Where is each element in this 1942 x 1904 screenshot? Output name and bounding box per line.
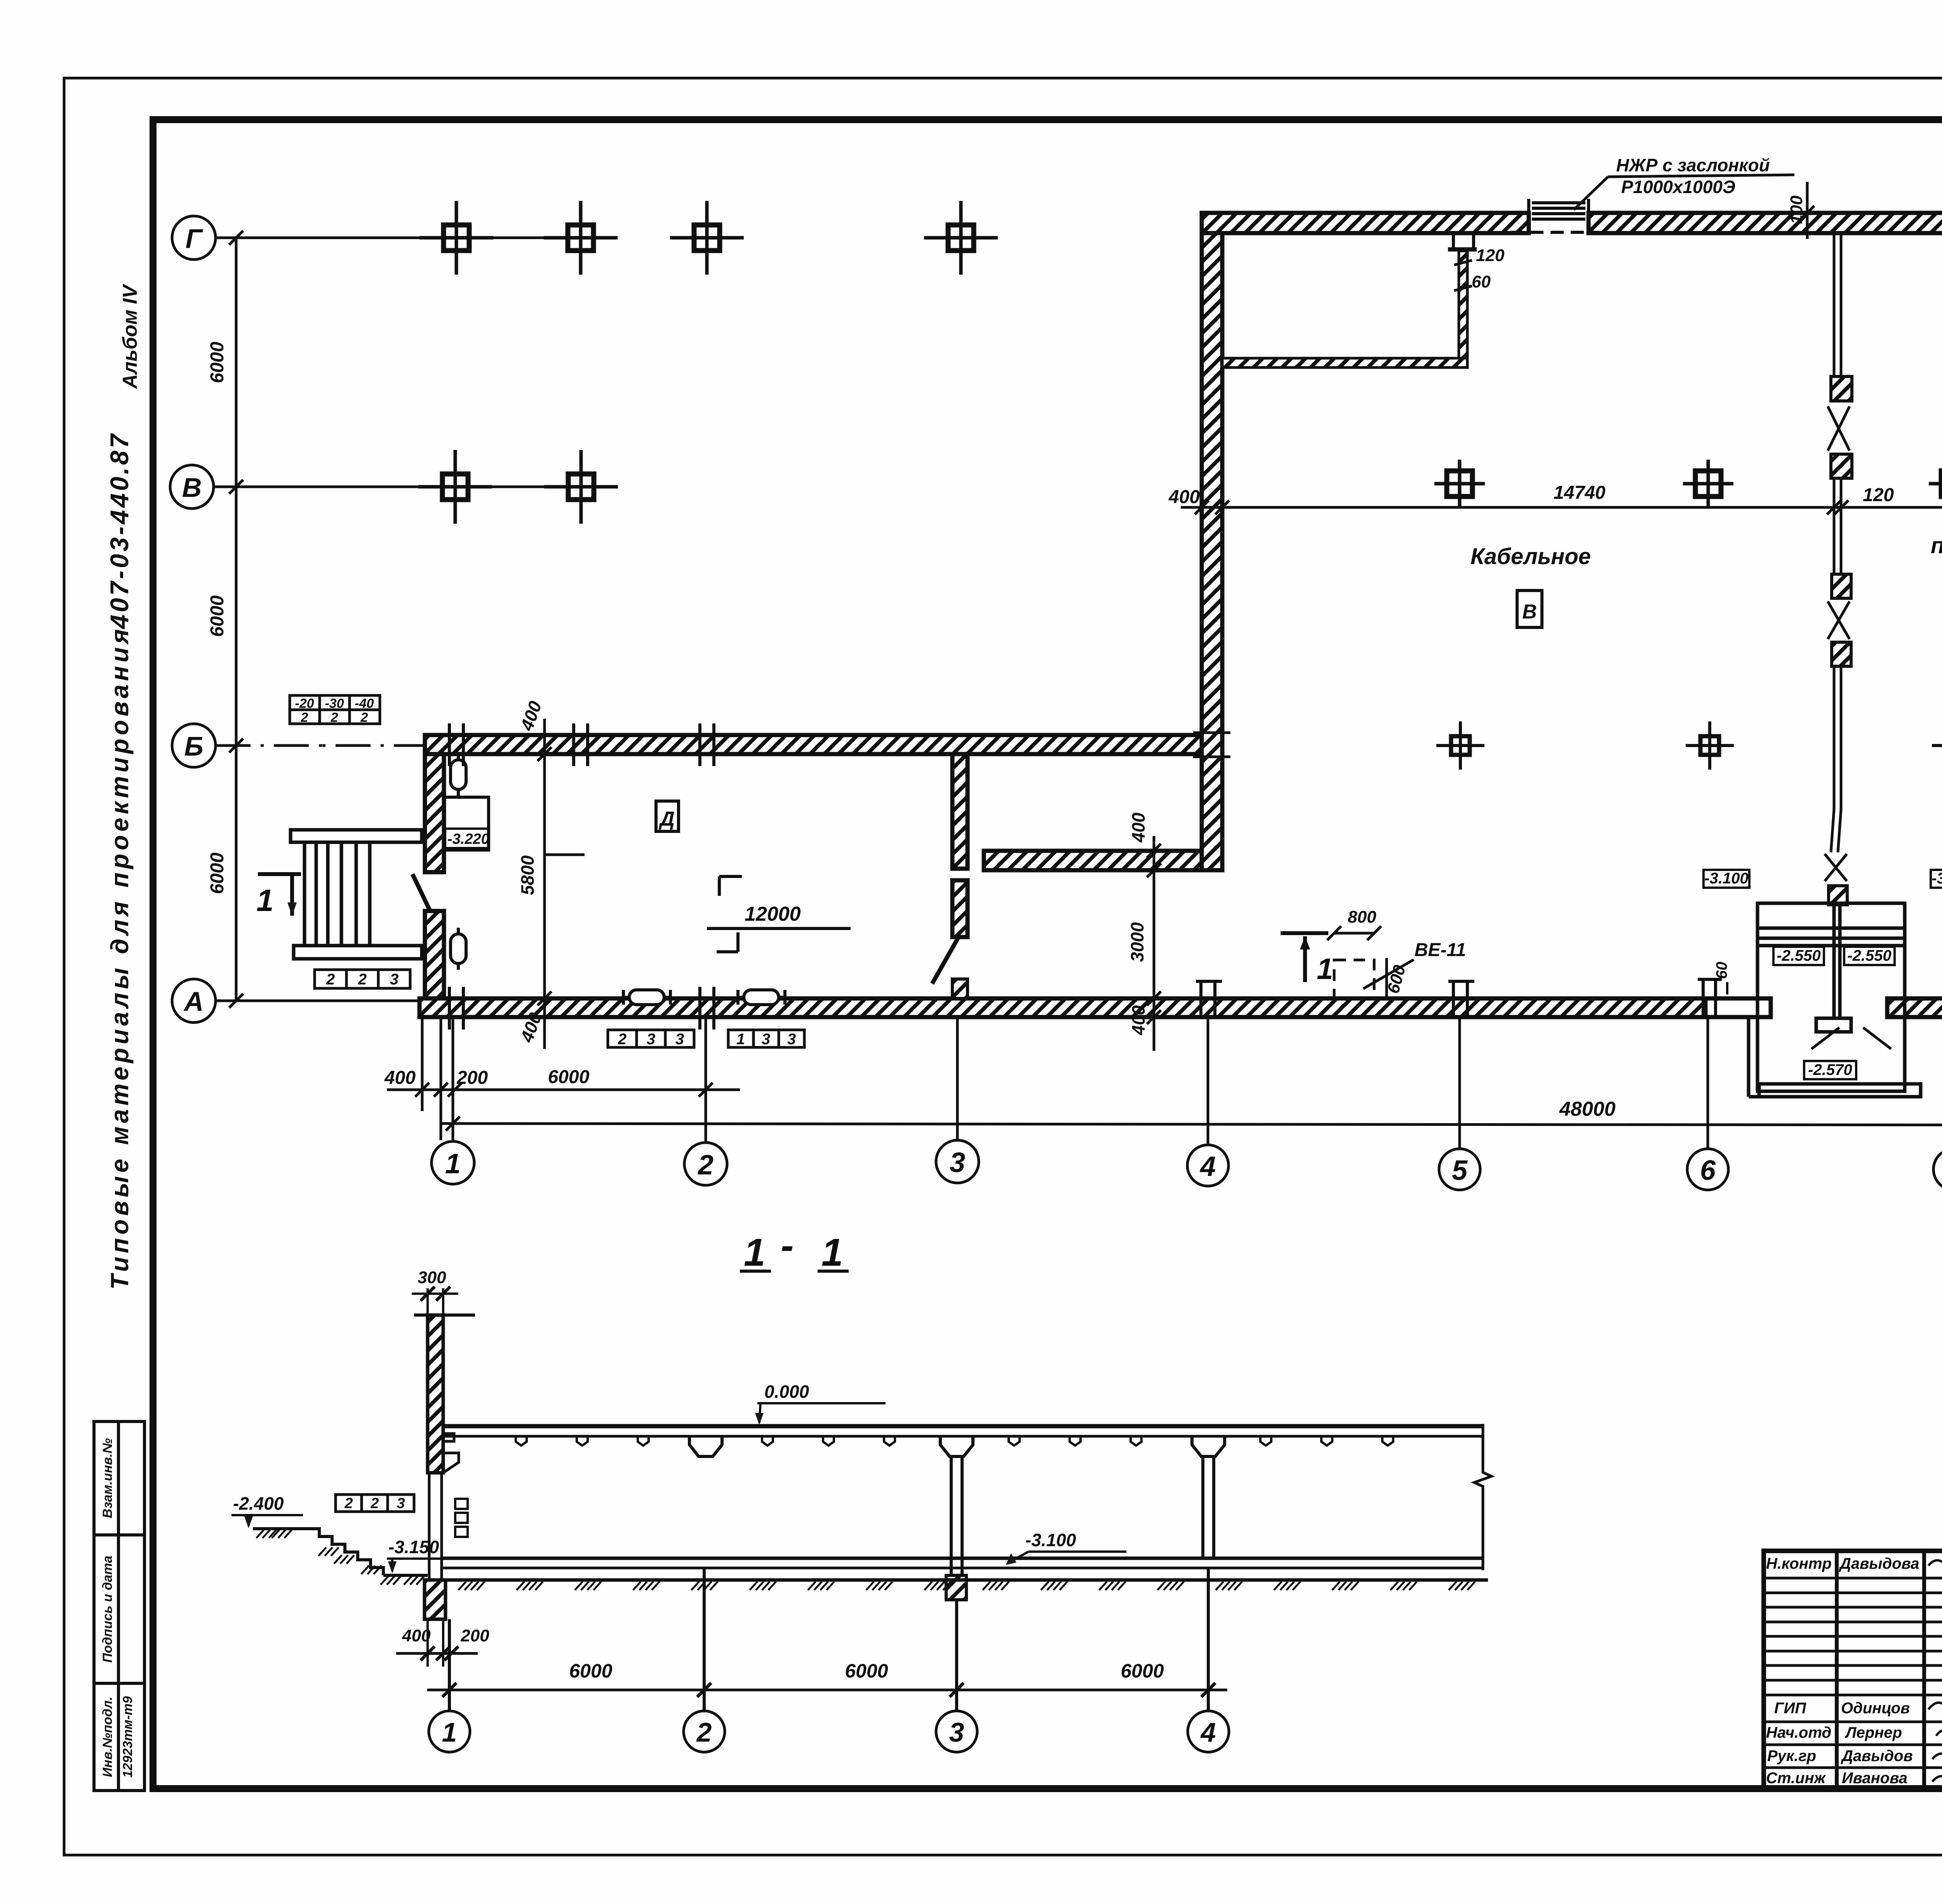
column capitals under slab <box>689 1436 722 1456</box>
signatures squiggles <box>1928 1557 1942 1782</box>
svg-text:200: 200 <box>460 1626 489 1645</box>
section title 1 - 1 <box>744 1224 843 1274</box>
svg-text:-3.100: -3.100 <box>1025 1530 1076 1550</box>
svg-text:НЖР с заслонкой: НЖР с заслонкой <box>1616 155 1770 175</box>
svg-text:6000: 6000 <box>207 341 228 383</box>
column symbols row Г <box>419 201 998 275</box>
svg-text:-3.150: -3.150 <box>388 1537 439 1557</box>
svg-text:0.000: 0.000 <box>764 1381 809 1402</box>
svg-text:2: 2 <box>370 1495 379 1512</box>
radiators on bottom wall room Д <box>623 990 785 1005</box>
svg-text:3: 3 <box>397 1495 405 1512</box>
door leaf west wall of room Д <box>412 874 430 911</box>
svg-text:1: 1 <box>736 1031 745 1048</box>
axis Г <box>172 216 216 260</box>
svg-text:Нач.отд: Нач.отд <box>1766 1724 1831 1741</box>
48000 dim line <box>441 1124 1942 1125</box>
wall junction ticks on west wall of big room <box>1193 732 1230 734</box>
dim line 400/5800/400 right of stairs <box>516 698 585 1049</box>
door leaf axis 3 <box>932 937 959 984</box>
svg-text:3: 3 <box>390 971 398 988</box>
svg-text:-40: -40 <box>355 696 374 711</box>
400/200/6000 dims bottom-left <box>387 1089 740 1091</box>
section mark 1 near stairs <box>256 874 301 918</box>
svg-text:6000: 6000 <box>207 595 228 637</box>
svg-text:Типовые материалы для проек: Типовые материалы для проектирования <box>106 625 134 1289</box>
svg-text:-3.220: -3.220 <box>447 831 489 847</box>
floor slab 0.000 <box>443 1424 1483 1428</box>
table 2 2 3 on section <box>336 1495 414 1512</box>
svg-text:Взам.инв.№: Взам.инв.№ <box>100 1438 115 1518</box>
svg-text:3: 3 <box>647 1031 655 1048</box>
vent grille 1 on top wall <box>1510 199 1599 232</box>
bottom wall (axis А) left of tank <box>419 998 1705 1017</box>
svg-text:-20: -20 <box>295 696 314 711</box>
tank level labels <box>1704 870 1942 1079</box>
equipment block -3.220 at west wall <box>444 797 489 850</box>
svg-text:2: 2 <box>301 710 308 725</box>
svg-text:1: 1 <box>256 883 274 918</box>
svg-text:407-03-440.87: 407-03-440.87 <box>105 432 134 629</box>
svg-text:Г: Г <box>186 223 204 254</box>
room Д west wall lower <box>425 911 444 998</box>
left margin small table <box>94 1421 144 1791</box>
svg-text:-2.400: -2.400 <box>233 1493 284 1514</box>
svg-text:Д: Д <box>658 808 675 830</box>
stamp texts <box>1766 1555 1942 1843</box>
svg-text:В: В <box>182 472 202 503</box>
svg-text:Б: Б <box>184 731 204 761</box>
svg-text:3: 3 <box>675 1031 684 1048</box>
svg-text:2: 2 <box>696 1717 712 1747</box>
svg-text:6000: 6000 <box>845 1660 888 1682</box>
svg-text:Иванова: Иванова <box>1842 1770 1907 1787</box>
svg-text:Одинцов: Одинцов <box>1841 1700 1910 1717</box>
column symbols row Б big room <box>1436 721 1942 770</box>
svg-text:Альбом IV: Альбом IV <box>119 283 141 389</box>
В dimension line across big room : 400 14740 120 14740 400 <box>1168 479 1942 514</box>
column symbols row В big room <box>1434 460 1942 508</box>
top-left interior room: vertical thin wall <box>1459 251 1467 364</box>
svg-text:14740: 14740 <box>1554 483 1606 503</box>
vent grille 1 label НЖР с заслонкой Р1000х1000Э <box>1574 155 1794 210</box>
svg-text:1: 1 <box>442 1717 457 1747</box>
tank (камера переключения задвижек) <box>1749 903 1921 1097</box>
axis В <box>170 465 214 509</box>
ВЕ-11 vent unit near axis 5 <box>1281 908 1466 998</box>
svg-text:120: 120 <box>1476 246 1505 265</box>
column at axis 3 with footing <box>950 1456 953 1575</box>
ground line <box>445 1578 1488 1582</box>
axis verticals up to plan <box>452 1013 454 1141</box>
svg-text:4: 4 <box>1199 1151 1216 1182</box>
svg-text:2: 2 <box>344 1495 353 1512</box>
slab ribs <box>516 1436 1393 1446</box>
main stamp outline <box>1764 1551 1942 1789</box>
svg-text:200: 200 <box>456 1068 488 1088</box>
svg-text:Инв.№подл.: Инв.№подл. <box>100 1697 115 1777</box>
section axis circles <box>448 1619 451 1711</box>
bottom wall (axis А) right of tank <box>1887 998 1942 1017</box>
svg-text:6: 6 <box>1700 1155 1716 1186</box>
center partition wall with gate valves <box>1825 233 1852 905</box>
svg-text:2: 2 <box>358 971 367 988</box>
svg-text:-: - <box>781 1224 794 1267</box>
svg-text:60: 60 <box>1472 272 1491 291</box>
bottom dims of section <box>426 1619 429 1667</box>
svg-text:ВЕ-11: ВЕ-11 <box>1415 940 1466 960</box>
svg-text:Кабельное: Кабельное <box>1470 544 1591 569</box>
svg-text:400: 400 <box>402 1626 431 1645</box>
north wall of room Д and corridor (axis Б) <box>425 735 1202 754</box>
radiators on west wall <box>451 754 466 970</box>
small tables with numbers <box>290 695 804 1048</box>
room Д west wall upper <box>425 754 444 872</box>
svg-text:60: 60 <box>1713 962 1730 979</box>
svg-text:1: 1 <box>821 1231 843 1274</box>
svg-text:400: 400 <box>1128 812 1148 843</box>
svg-text:помещение: помещение <box>1931 533 1942 558</box>
wall on axis 3 <box>952 754 968 869</box>
SHEET : axis grid <box>170 216 608 1023</box>
svg-text:6000: 6000 <box>207 852 228 894</box>
svg-text:12000: 12000 <box>745 903 801 925</box>
axis А <box>172 979 216 1023</box>
svg-text:Н.контр: Н.контр <box>1766 1555 1832 1572</box>
svg-text:А: А <box>183 986 204 1017</box>
big room west wall <box>1202 233 1222 870</box>
svg-text:400: 400 <box>1128 1005 1148 1035</box>
svg-text:800: 800 <box>1348 908 1376 927</box>
svg-text:48000: 48000 <box>1559 1098 1616 1120</box>
three small boxes right of wall <box>455 1499 468 1509</box>
top wall (axis Г side) hatched, 3 segments with vent gaps <box>1202 213 1529 233</box>
svg-text:6000: 6000 <box>569 1660 612 1682</box>
svg-text:-3.100: -3.100 <box>1704 870 1748 887</box>
svg-text:2: 2 <box>326 971 335 988</box>
svg-text:Р1000х1000Э: Р1000х1000Э <box>1621 177 1735 197</box>
earth hatch tufts <box>256 1529 1475 1590</box>
left vertical dim line <box>235 238 238 1001</box>
dim 12000 room Д <box>707 876 851 952</box>
column at axis 4 <box>1201 1456 1204 1558</box>
svg-text:3000: 3000 <box>1127 922 1147 962</box>
svg-text:2: 2 <box>331 710 338 725</box>
svg-text:120: 120 <box>1863 485 1894 505</box>
svg-text:-3.100: -3.100 <box>1932 870 1942 887</box>
corridor south wall <box>984 851 1202 870</box>
lower slab -3.100 <box>442 1557 1483 1560</box>
svg-text:Давыдова: Давыдова <box>1839 1555 1919 1572</box>
svg-text:Лернер: Лернер <box>1845 1724 1902 1741</box>
svg-text:4: 4 <box>1200 1717 1216 1747</box>
svg-text:-2.570: -2.570 <box>1808 1061 1852 1078</box>
svg-text:3: 3 <box>949 1717 964 1747</box>
svg-text:Ст.инж: Ст.инж <box>1766 1770 1827 1787</box>
svg-text:6000: 6000 <box>548 1067 590 1087</box>
top-left interior room: horizontal thin wall <box>1222 358 1467 368</box>
svg-text:1: 1 <box>744 1231 766 1274</box>
door jamb block axis 3 <box>952 880 968 937</box>
column symbols row В left <box>418 450 618 524</box>
left signature table verticals <box>1835 1551 1839 1789</box>
svg-text:300: 300 <box>418 1268 446 1287</box>
svg-text:-2.550: -2.550 <box>1847 947 1891 964</box>
top-left interior room: door jamb at top wall <box>1452 233 1455 248</box>
svg-text:12923тм-т9: 12923тм-т9 <box>120 1696 135 1778</box>
left margin rotated captions <box>105 283 141 1289</box>
svg-text:2: 2 <box>697 1150 713 1181</box>
svg-text:-30: -30 <box>325 696 344 711</box>
svg-text:Рук.гр: Рук.гр <box>1767 1747 1816 1765</box>
svg-text:-2.550: -2.550 <box>1777 947 1820 964</box>
axis Б <box>172 724 216 767</box>
svg-text:1: 1 <box>445 1148 461 1179</box>
svg-text:400: 400 <box>1168 487 1200 507</box>
svg-text:5: 5 <box>1452 1155 1468 1186</box>
left table row lines <box>1764 1578 1942 1768</box>
axis А wall ticks <box>449 962 1942 1030</box>
stairs <box>291 830 422 959</box>
svg-text:2: 2 <box>618 1031 626 1048</box>
svg-text:3: 3 <box>950 1147 965 1178</box>
dim 400 near corridor (axis 4 line) <box>1127 812 1161 1051</box>
dim labels 120 and 60 at top-left room wall <box>1472 246 1505 291</box>
svg-text:1: 1 <box>1317 953 1333 986</box>
svg-text:Подпись и дата: Подпись и дата <box>100 1556 115 1663</box>
axis Б wall ticks (left part) <box>449 723 714 766</box>
svg-text:400: 400 <box>384 1068 416 1088</box>
svg-text:2: 2 <box>360 710 368 725</box>
svg-text:5800: 5800 <box>517 855 538 895</box>
svg-text:6000: 6000 <box>1121 1660 1164 1682</box>
svg-text:3: 3 <box>762 1031 770 1048</box>
PLAN <box>412 213 1942 1017</box>
svg-text:ГИП: ГИП <box>1774 1700 1806 1717</box>
bottom axis circles 1-9 <box>384 1013 1942 1192</box>
dim 100 at top wall <box>1787 182 1814 239</box>
SECTION 1-1 <box>231 1224 1491 1752</box>
svg-text:3: 3 <box>787 1031 796 1048</box>
right break line <box>1474 1424 1491 1570</box>
svg-text:100: 100 <box>1787 195 1806 224</box>
svg-text:Давыдов: Давыдов <box>1841 1747 1913 1765</box>
svg-text:В: В <box>1522 601 1537 623</box>
left wall of section <box>414 1313 475 1317</box>
